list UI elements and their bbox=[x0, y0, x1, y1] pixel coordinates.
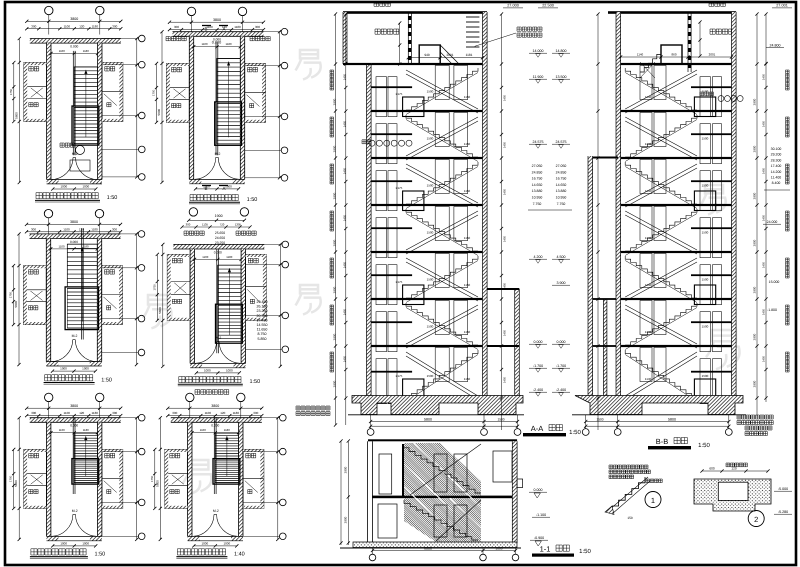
section B-B: bottom dims bbox=[586, 421, 729, 423]
svg-text:1:50: 1:50 bbox=[249, 379, 260, 385]
svg-text:2900: 2900 bbox=[333, 239, 337, 246]
svg-text:24.800: 24.800 bbox=[770, 44, 781, 48]
section A-A: cut flight descending right storey y=111 bbox=[406, 115, 478, 157]
plan5: flight direction arrow bbox=[85, 436, 87, 476]
svg-text:1140: 1140 bbox=[645, 236, 652, 240]
plan3: left side room bbox=[24, 266, 47, 325]
svg-text:A: A bbox=[222, 186, 225, 191]
svg-text:30.100: 30.100 bbox=[771, 147, 782, 151]
plan5: upper flight treads bbox=[74, 433, 97, 459]
section A-A: floor slabs bbox=[371, 63, 482, 65]
svg-text:2900: 2900 bbox=[753, 333, 757, 340]
svg-text:14.200: 14.200 bbox=[771, 170, 782, 174]
svg-text:2900: 2900 bbox=[333, 286, 337, 293]
section A-A: cut flight descending left storey y=64 bbox=[406, 68, 478, 110]
svg-text:2900: 2900 bbox=[333, 192, 337, 199]
svg-text:5800: 5800 bbox=[14, 480, 18, 487]
plan5: top wall bbox=[30, 418, 121, 423]
detail 1: circled number 1 bbox=[645, 492, 661, 508]
svg-text:1180: 1180 bbox=[224, 428, 230, 432]
section A-A: cut flight descending left storey y=252 bbox=[406, 256, 478, 298]
plan caption text bbox=[31, 549, 86, 555]
svg-text:1180: 1180 bbox=[91, 411, 98, 415]
section A-A: bottom dims bbox=[371, 421, 518, 423]
svg-text:1450: 1450 bbox=[343, 120, 347, 127]
svg-text:2900: 2900 bbox=[753, 380, 757, 387]
svg-text:3800: 3800 bbox=[70, 404, 78, 408]
svg-text:29.450: 29.450 bbox=[257, 300, 268, 304]
svg-text:1180: 1180 bbox=[225, 42, 231, 46]
section B-B: left dim chain bbox=[597, 14, 599, 430]
plan4: right side room bbox=[246, 254, 267, 320]
section B-B: cut flight descending left storey y=205 bbox=[625, 209, 697, 251]
svg-text:7.750: 7.750 bbox=[557, 202, 566, 206]
svg-text:1450: 1450 bbox=[343, 73, 347, 80]
svg-text:4.500: 4.500 bbox=[557, 255, 566, 259]
section A-A: mid landing slab storey y=299 bbox=[371, 321, 412, 323]
plan2: fire hydrant labels bbox=[166, 37, 186, 41]
section A-A: roof hatch box bbox=[419, 45, 440, 64]
note text below A-A foundation left bbox=[296, 406, 330, 410]
svg-text:1750: 1750 bbox=[152, 89, 156, 96]
svg-text:1750: 1750 bbox=[150, 475, 154, 482]
section A-A: return flight band storey y=205 bbox=[406, 211, 478, 250]
svg-text:2175: 2175 bbox=[396, 92, 403, 96]
section B-B: cut flight descending left storey y=299 bbox=[625, 303, 697, 345]
svg-text:M-2: M-2 bbox=[215, 336, 221, 340]
detail 2: circled number 2 bbox=[748, 511, 764, 527]
svg-text:2900: 2900 bbox=[344, 466, 348, 473]
plan6: left stair-well wall bbox=[188, 422, 192, 536]
svg-text:13.880: 13.880 bbox=[556, 189, 567, 193]
section B-B: cut flight descending right storey y=346 bbox=[625, 350, 697, 397]
section B-B: roof hatch box and stair bbox=[661, 45, 682, 64]
svg-text:1180: 1180 bbox=[234, 25, 241, 29]
plan1: upper flight treads bbox=[74, 67, 97, 106]
svg-text:1180: 1180 bbox=[83, 49, 89, 53]
svg-text:B-B: B-B bbox=[656, 437, 669, 446]
plan2: upper flight treads bbox=[217, 59, 240, 102]
section A-A: mid landing slab storey y=64 bbox=[371, 86, 412, 88]
svg-text:1450: 1450 bbox=[503, 94, 507, 101]
svg-text:1500: 1500 bbox=[702, 374, 709, 378]
section A-A: return flight band storey y=64 bbox=[406, 70, 478, 109]
svg-text:1000: 1000 bbox=[226, 368, 233, 372]
svg-text:24.850: 24.850 bbox=[556, 170, 567, 174]
section A-A: precast mark circles row bbox=[362, 140, 371, 144]
plan5: right dim chain bbox=[136, 418, 138, 540]
section B-B: landing balustrade box storey y=252 bbox=[694, 285, 715, 305]
svg-text:8.400: 8.400 bbox=[772, 181, 781, 185]
plan1: top axis bubbles bbox=[45, 6, 53, 14]
section B-B: return flight band storey y=111 bbox=[625, 117, 697, 156]
section B-B: openings storey at y=111 bbox=[640, 113, 652, 147]
svg-text:3800: 3800 bbox=[70, 17, 78, 21]
section 1-1: bottom dim and axis bubbles bbox=[373, 550, 516, 552]
svg-text:1450: 1450 bbox=[503, 282, 507, 289]
plan3: upper flight treads bbox=[67, 244, 97, 287]
section 1-1: left dim chains bbox=[347, 441, 349, 545]
plan3: right dim chain bbox=[136, 234, 138, 365]
section A-A: right dim chain bbox=[501, 14, 503, 430]
section 1-1: door openings bbox=[379, 454, 392, 494]
section B-B: water tank room label bbox=[709, 2, 725, 7]
svg-text:1500: 1500 bbox=[702, 325, 709, 329]
plan4: landing line and door arcs at bottom bbox=[195, 341, 217, 363]
plan1: lower flight treads with enclosure bbox=[72, 106, 99, 145]
section A-A: main right wall bbox=[483, 12, 488, 398]
section B-B: openings storey at y=346 bbox=[640, 348, 652, 382]
section A-A: return flight band storey y=299 bbox=[406, 305, 478, 344]
section A-A: openings storey at y=299 bbox=[376, 312, 387, 352]
svg-text:1100: 1100 bbox=[58, 244, 64, 248]
plan2: left stair-well wall bbox=[189, 36, 193, 179]
section 1-1: mid floor slab bbox=[372, 496, 512, 499]
plan1: right axis bubbles column bbox=[102, 38, 138, 40]
section A-A: roof access ladder rungs bbox=[466, 16, 479, 18]
plan5: top axis bubbles bbox=[45, 393, 53, 401]
svg-text:24.650: 24.650 bbox=[215, 236, 225, 240]
section A-A: cut flight descending left storey y=158 bbox=[406, 162, 478, 204]
section A-A: mid landing slab storey y=205 bbox=[371, 227, 412, 229]
plan4: left stair-well wall bbox=[190, 249, 194, 363]
section B-B: mid landing slab storey y=158 bbox=[691, 180, 732, 182]
svg-text:1450: 1450 bbox=[343, 167, 347, 174]
section A-A: mid landing slab storey y=346 bbox=[371, 371, 412, 373]
svg-text:120: 120 bbox=[79, 24, 84, 28]
svg-text:150: 150 bbox=[627, 516, 633, 520]
svg-text:2001: 2001 bbox=[709, 52, 716, 56]
svg-text:1140: 1140 bbox=[645, 283, 652, 287]
detail 1: tread nosing steps bbox=[612, 477, 645, 506]
svg-text:1450: 1450 bbox=[762, 73, 766, 80]
section A-A: return flight band storey y=346 bbox=[406, 352, 478, 396]
section A-A: elevator shaft wall in top storey bbox=[407, 13, 409, 64]
svg-text:1140: 1140 bbox=[645, 377, 652, 381]
svg-text:1500: 1500 bbox=[702, 184, 709, 188]
plan1: right side room bbox=[102, 63, 123, 122]
svg-text:1:50: 1:50 bbox=[569, 429, 581, 436]
section A-A: water tank room left wall bbox=[343, 12, 347, 64]
note text right of B-B base bbox=[737, 415, 773, 419]
section B-B: foundation hatched strip with pits bbox=[575, 396, 743, 415]
svg-text:1500: 1500 bbox=[427, 231, 434, 235]
svg-text:0.000: 0.000 bbox=[534, 488, 543, 492]
plan3: bottom wall with door opening bbox=[46, 362, 58, 366]
section B-B: return flight band storey y=205 bbox=[625, 211, 697, 250]
svg-text:-0.900: -0.900 bbox=[534, 536, 544, 540]
svg-text:4.200: 4.200 bbox=[534, 255, 543, 259]
section B-B: machine room label bbox=[710, 29, 734, 34]
section 1-1: upper flight sawtooth bbox=[403, 444, 481, 493]
svg-text:1450: 1450 bbox=[503, 188, 507, 195]
plan2: flight direction arrow bbox=[228, 62, 230, 138]
svg-text:1450: 1450 bbox=[503, 141, 507, 148]
section B-B: openings storey at y=299 bbox=[640, 301, 652, 335]
svg-text:1500: 1500 bbox=[427, 374, 434, 378]
section A-A: openings storey at y=346 bbox=[376, 359, 387, 404]
svg-text:1450: 1450 bbox=[762, 120, 766, 127]
plan4: right stair-well wall bbox=[241, 249, 245, 363]
svg-text:0.000: 0.000 bbox=[211, 424, 219, 428]
svg-text:27.000: 27.000 bbox=[507, 4, 519, 8]
svg-text:2900: 2900 bbox=[753, 145, 757, 152]
section A-A: main left wall bbox=[367, 64, 372, 398]
section B-B: return flight band storey y=158 bbox=[625, 164, 697, 203]
section A-A: return flight band storey y=252 bbox=[406, 258, 478, 297]
svg-text:5800: 5800 bbox=[668, 418, 676, 422]
svg-text:1100: 1100 bbox=[64, 24, 71, 28]
section B-B: openings storey at y=252 bbox=[640, 254, 652, 288]
detail 2: stippled concrete pit block bbox=[694, 479, 771, 511]
section B-B: cut flight descending right storey y=158 bbox=[625, 162, 697, 204]
svg-text:2900: 2900 bbox=[753, 286, 757, 293]
svg-text:25.650: 25.650 bbox=[215, 231, 225, 235]
plan1: left side room bbox=[24, 63, 47, 122]
section B-B: left lower extension bbox=[588, 156, 593, 398]
plan caption text bbox=[45, 375, 93, 381]
svg-text:B: B bbox=[204, 186, 207, 191]
svg-text:2900: 2900 bbox=[344, 516, 348, 523]
svg-text:1180: 1180 bbox=[92, 24, 99, 28]
plan5: right axis bubbles column bbox=[102, 417, 138, 419]
svg-text:M-2: M-2 bbox=[72, 152, 78, 156]
plan4: handrail divider line bbox=[216, 249, 218, 353]
section 1-1: crossing flight diagonals bbox=[410, 444, 481, 495]
svg-text:1150: 1150 bbox=[464, 95, 471, 99]
section B-B: right dim chains bbox=[756, 14, 758, 416]
svg-text:1140: 1140 bbox=[645, 95, 652, 99]
svg-text:2900: 2900 bbox=[753, 98, 757, 105]
plan6: left dim chains bbox=[159, 418, 161, 540]
svg-text:29.200: 29.200 bbox=[771, 153, 782, 157]
section A-A: machine room floor slab extension bbox=[343, 63, 371, 65]
detail 1: finish note text rows bbox=[609, 465, 648, 469]
plan6: bottom dim bbox=[194, 545, 237, 547]
plan caption text bbox=[190, 195, 238, 201]
svg-text:1500: 1500 bbox=[427, 325, 434, 329]
svg-text:-1.100: -1.100 bbox=[536, 513, 546, 517]
svg-text:300: 300 bbox=[112, 411, 117, 415]
plan5: left side room bbox=[24, 449, 47, 508]
svg-text:940: 940 bbox=[424, 53, 430, 57]
svg-text:M-2: M-2 bbox=[72, 509, 78, 513]
section A-A: mid landing slab storey y=252 bbox=[371, 274, 412, 276]
svg-text:-2.400: -2.400 bbox=[556, 388, 566, 392]
svg-text:16.750: 16.750 bbox=[556, 177, 567, 181]
section A-A: openings storey at y=158 bbox=[376, 171, 387, 211]
plan1: flight direction arrow bbox=[85, 70, 87, 137]
section A-A: landing balustrade box storey y=346 bbox=[403, 379, 424, 399]
plan2: handrail divider line bbox=[215, 43, 217, 156]
svg-text:1181: 1181 bbox=[466, 53, 473, 57]
svg-text:0.000: 0.000 bbox=[214, 250, 222, 254]
section 1-1: upper storey hatched stair mass bbox=[404, 443, 481, 496]
plan caption text bbox=[179, 377, 241, 383]
svg-text:300: 300 bbox=[31, 227, 36, 231]
section 1-1: right wall ledge bbox=[517, 479, 523, 488]
svg-text:1750: 1750 bbox=[152, 284, 156, 291]
section B-B: precast mark circles row bbox=[700, 92, 713, 96]
plan1: right dim chain bbox=[136, 39, 138, 177]
svg-text:1450: 1450 bbox=[343, 261, 347, 268]
svg-text:11.400: 11.400 bbox=[771, 176, 781, 180]
svg-text:A-A: A-A bbox=[531, 424, 544, 433]
svg-text:1150: 1150 bbox=[464, 142, 471, 146]
section A-A: landing balustrade box storey y=64 bbox=[403, 97, 424, 117]
svg-text:1450: 1450 bbox=[762, 261, 766, 268]
svg-text:1500: 1500 bbox=[702, 278, 709, 282]
plan3: flight direction arrow bbox=[81, 247, 83, 321]
svg-text:300: 300 bbox=[31, 24, 36, 28]
svg-text:11.650: 11.650 bbox=[257, 328, 268, 332]
svg-text:-1.700: -1.700 bbox=[533, 364, 543, 368]
section B-B: mid landing slab storey y=299 bbox=[691, 321, 732, 323]
plan6: right side room bbox=[243, 449, 264, 508]
svg-text:720: 720 bbox=[220, 223, 225, 227]
section B-B: mid landing slab storey y=346 bbox=[691, 371, 732, 373]
plan1: sump pit and pump marks bbox=[70, 160, 90, 171]
plan2: bottom dim bbox=[196, 188, 239, 190]
svg-text:14.650: 14.650 bbox=[532, 183, 543, 187]
svg-text:5800: 5800 bbox=[158, 307, 162, 314]
svg-text:1140: 1140 bbox=[645, 189, 652, 193]
svg-text:-5.000: -5.000 bbox=[778, 487, 788, 491]
svg-text:2: 2 bbox=[754, 515, 758, 524]
svg-text:0.000: 0.000 bbox=[212, 41, 222, 45]
svg-text:1100: 1100 bbox=[202, 255, 208, 259]
section 1-1: left wall bbox=[367, 441, 369, 543]
svg-text:120: 120 bbox=[79, 411, 84, 415]
svg-text:1180: 1180 bbox=[91, 227, 98, 231]
svg-text:2175: 2175 bbox=[396, 186, 403, 190]
section A-A: openings storey at y=64 bbox=[376, 77, 387, 117]
section B-B: top storey dim bbox=[621, 56, 732, 58]
svg-text:1450: 1450 bbox=[503, 376, 507, 383]
plan2: bottom wall with door opening bbox=[189, 179, 201, 183]
svg-text:1000: 1000 bbox=[223, 541, 230, 545]
plan4: left dim chains bbox=[162, 244, 164, 366]
svg-text:14.650: 14.650 bbox=[556, 183, 567, 187]
plan4: left side room bbox=[167, 254, 190, 320]
svg-text:24.575: 24.575 bbox=[556, 140, 567, 144]
section A-A: leader to note bbox=[475, 33, 516, 46]
section A-A: machine room label bbox=[375, 29, 399, 34]
plan5: right side room bbox=[102, 449, 123, 508]
svg-text:1100: 1100 bbox=[59, 428, 65, 432]
svg-text:0.000: 0.000 bbox=[70, 240, 78, 244]
plan5: bottom wall with door opening bbox=[47, 536, 59, 540]
svg-text:1180: 1180 bbox=[226, 255, 232, 259]
svg-text:1150: 1150 bbox=[464, 283, 471, 287]
section A-A: mid landing slab storey y=158 bbox=[371, 180, 412, 182]
plan5: handrail divider line bbox=[72, 417, 74, 494]
svg-text:5800: 5800 bbox=[157, 108, 161, 115]
section B-B: openings storey at y=205 bbox=[640, 207, 652, 241]
plan6: lower flight treads with enclosure bbox=[213, 459, 240, 485]
plan4: lower flight treads with enclosure bbox=[216, 304, 243, 343]
plan6: machine room note above bbox=[195, 390, 229, 395]
svg-text:1150: 1150 bbox=[464, 377, 471, 381]
plan1: handrail divider line bbox=[72, 51, 74, 155]
section A-A: landing balustrade box storey y=252 bbox=[403, 285, 424, 305]
svg-text:1450: 1450 bbox=[762, 214, 766, 221]
svg-text:27.001: 27.001 bbox=[776, 4, 788, 8]
section B-B: cut flight descending right storey y=252 bbox=[625, 256, 697, 298]
plan2: top wall bbox=[173, 32, 264, 37]
section B-B: roof slab bbox=[608, 11, 736, 14]
svg-text:1500: 1500 bbox=[427, 278, 434, 282]
section B-B: landing balustrade box storey y=158 bbox=[694, 191, 715, 211]
svg-text:600: 600 bbox=[709, 466, 715, 470]
svg-text:1450: 1450 bbox=[503, 329, 507, 336]
svg-text:1750: 1750 bbox=[9, 88, 13, 95]
svg-text:1140: 1140 bbox=[637, 52, 644, 56]
plan1: left dim chains bbox=[18, 39, 20, 183]
svg-text:1100: 1100 bbox=[63, 227, 70, 231]
svg-text:1180: 1180 bbox=[83, 428, 89, 432]
plan1: right stair-well wall bbox=[98, 43, 102, 179]
svg-text:5800: 5800 bbox=[14, 112, 18, 119]
svg-text:1000: 1000 bbox=[60, 185, 67, 189]
section B-B: return flight band storey y=64 bbox=[625, 70, 697, 109]
section A-A: left dim chains bbox=[335, 14, 337, 425]
section A-A: landing balustrade box storey y=158 bbox=[403, 191, 424, 211]
svg-text:1500: 1500 bbox=[427, 137, 434, 141]
svg-text:1:50: 1:50 bbox=[107, 195, 118, 201]
svg-text:0.000: 0.000 bbox=[70, 424, 78, 428]
svg-text:1450: 1450 bbox=[762, 308, 766, 315]
plan3: right axis bubbles column bbox=[102, 233, 138, 235]
svg-text:-1.700: -1.700 bbox=[556, 364, 566, 368]
section A-A: openings storey at y=252 bbox=[376, 265, 387, 305]
section A-A: water tank room label bbox=[374, 2, 390, 7]
section A-A: openings storey at y=205 bbox=[376, 218, 387, 258]
svg-text:-1.800: -1.800 bbox=[767, 308, 777, 312]
svg-text:1000: 1000 bbox=[495, 546, 502, 550]
svg-text:A: A bbox=[222, 27, 225, 32]
svg-text:24.000: 24.000 bbox=[767, 220, 778, 224]
svg-text:1750: 1750 bbox=[9, 292, 13, 299]
svg-text:1150: 1150 bbox=[464, 189, 471, 193]
section B-B: cut flight descending right storey y=64 bbox=[625, 68, 697, 110]
svg-text:7.750: 7.750 bbox=[533, 202, 542, 206]
svg-text:1500: 1500 bbox=[427, 184, 434, 188]
svg-text:14.550: 14.550 bbox=[257, 323, 268, 327]
svg-text:2175: 2175 bbox=[396, 374, 403, 378]
plan6: right axis bubbles column bbox=[243, 417, 279, 419]
plan2: top axis bubbles bbox=[187, 7, 195, 15]
plan5: left dim chains bbox=[18, 418, 20, 540]
section B-B: mid landing slab storey y=111 bbox=[691, 133, 732, 135]
svg-text:1500: 1500 bbox=[497, 418, 504, 422]
svg-text:14.000: 14.000 bbox=[533, 49, 544, 53]
svg-text:15.000: 15.000 bbox=[769, 280, 780, 284]
svg-text:20.350: 20.350 bbox=[257, 314, 268, 318]
plan1: top wall bbox=[30, 39, 121, 44]
svg-text:1000: 1000 bbox=[82, 367, 89, 371]
section 1-1: lower flight sawtooth bbox=[404, 500, 478, 540]
section B-B: return flight band storey y=346 bbox=[625, 352, 697, 396]
svg-text:3800: 3800 bbox=[211, 404, 219, 408]
svg-text:1750: 1750 bbox=[9, 475, 13, 482]
svg-text:27.050: 27.050 bbox=[532, 164, 543, 168]
section B-B: return flight band storey y=299 bbox=[625, 305, 697, 344]
svg-text:17.400: 17.400 bbox=[771, 164, 782, 168]
svg-text:1450: 1450 bbox=[343, 355, 347, 362]
svg-text:1100: 1100 bbox=[201, 42, 207, 46]
detail 2: top dim line bbox=[702, 470, 768, 472]
